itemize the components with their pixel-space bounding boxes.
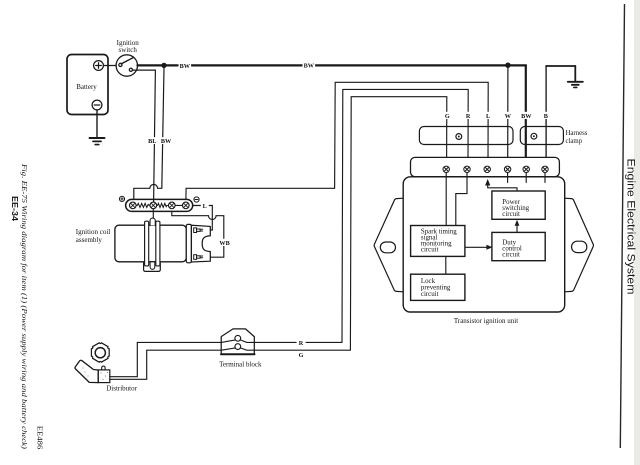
svg-text:B: B (544, 113, 548, 120)
svg-text:circuit: circuit (502, 252, 520, 259)
svg-text:R: R (299, 340, 304, 347)
svg-text:circuit: circuit (421, 247, 439, 254)
svg-text:W: W (505, 113, 512, 120)
svg-text:L: L (203, 203, 207, 210)
svg-text:Battery: Battery (76, 83, 97, 91)
svg-text:clamp: clamp (566, 138, 583, 145)
svg-text:BW: BW (304, 63, 315, 70)
svg-text:G: G (299, 352, 304, 359)
svg-text:circuit: circuit (502, 211, 520, 218)
svg-text:G: G (445, 113, 450, 120)
svg-text:BW: BW (161, 138, 172, 145)
svg-text:circuit: circuit (421, 291, 439, 298)
svg-text:Distributor: Distributor (106, 384, 137, 392)
svg-text:Transistor ignition unit: Transistor ignition unit (454, 317, 518, 325)
svg-text:Engine Electrical System: Engine Electrical System (625, 159, 637, 295)
svg-text:Harness: Harness (566, 130, 588, 137)
svg-text:R: R (466, 113, 471, 120)
svg-text:EE486: EE486 (36, 426, 44, 450)
svg-text:BW: BW (521, 113, 532, 120)
svg-text:Fig. EE-75 Wiring diagram fo: Fig. EE-75 Wiring diagram for item (1) (… (20, 163, 29, 450)
svg-text:Terminal block: Terminal block (219, 361, 262, 369)
svg-text:EE-34: EE-34 (10, 196, 19, 221)
svg-text:BW: BW (180, 63, 191, 70)
svg-text:WB: WB (219, 240, 229, 247)
svg-text:BL: BL (148, 138, 156, 145)
svg-text:L: L (486, 113, 490, 120)
svg-text:switch: switch (119, 46, 138, 54)
svg-text:assembly: assembly (76, 236, 103, 244)
